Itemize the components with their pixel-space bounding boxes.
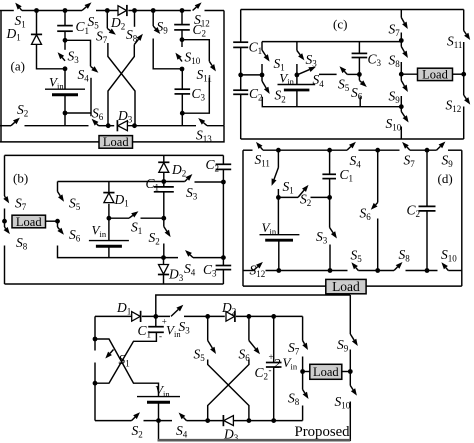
switch S10 (c) [400,107,402,112]
wire (b) S6 to inner bottom rail [58,246,179,258]
wire (d) inner rail seg3 [358,270,394,272]
switch S3 (c) [296,42,298,51]
switch S3 lower stub (d) [329,245,331,271]
wire load to S5S6 column [46,220,58,222]
switch S1 right wire [141,217,164,219]
switch S12 (c) [464,95,467,99]
capacitor C2 (b) [222,155,224,164]
node (a) C1 bottom [63,38,68,43]
wire D1 to Vin node (b) [108,204,110,218]
switch S4 lower stub [90,78,92,116]
wire (a) top rail segment D2 to S12 [128,10,191,12]
switch S2 (p) [132,417,135,420]
wire S4 to C3 node [193,257,223,259]
diode D2 (b) [163,155,165,162]
wire right edge to load (p) [349,350,351,372]
switch S2 (d) [278,196,298,198]
wire load left (c) [401,73,417,75]
wire S3 to C2 node [195,181,224,183]
node (p) battery bottom [156,418,161,423]
wire (c) left edge mid [240,47,242,90]
switch S6 (d) [377,150,379,202]
switch S3 (d) [329,197,331,227]
node (c) C3 bottom [357,72,362,77]
load box (a) [99,136,133,149]
wire (a) bottom rail seg2 [25,125,89,127]
switch S5 (c) [344,71,347,74]
node (c) load left [399,72,404,77]
svg-text:(d): (d) [438,171,453,186]
node (p) cross bottom right [247,418,252,423]
switch S7 upper stub [105,8,110,13]
wire (b) right column [222,182,224,258]
wire (c) right edge lower [463,107,465,140]
wire (a) bottom rail seg3 [99,125,115,127]
diode D1 (b) [108,182,110,193]
node (b) C1 bottom [161,216,166,221]
wire (d) right edge [461,150,463,286]
switch S12 (d) [254,267,258,271]
switch S10 (p) [349,372,351,386]
switch S11 lower wire [182,78,209,114]
node (a) top S9 [151,8,156,13]
capacitor C2 (c) [233,89,248,91]
switch S8 (c) [400,42,402,47]
switch S11 (c) [464,31,467,35]
node (p) left lower [93,381,98,386]
node (d) S6 bottom [375,268,380,273]
battery Vin (d) [277,197,279,234]
switch S6 (p) [248,316,250,340]
switch S7 (p) [302,316,304,340]
node (p) load right [348,369,353,374]
wire proposed outer top rail [156,295,350,316]
svg-text:Load: Load [16,215,42,229]
switch S6 [97,124,99,126]
diode D2 [118,6,127,16]
switch S6 (c) [358,74,360,80]
switch S1 (b) wire [109,217,129,219]
wire D3 to bottom rail [163,275,165,285]
wire (a) top rail mid segment [22,10,82,12]
wire (a) left edge [0,11,2,143]
battery Vin (p) [137,396,180,398]
node (a) C3 bottom [180,111,185,116]
capacitor C2 (p) [273,316,275,362]
switch S12 [193,7,197,10]
capacitor C3 (a) [181,69,183,89]
node (p) S5 top [205,314,210,319]
wire (b) left edge lower [4,246,6,285]
switch S1 (b) [129,215,133,218]
switch S1 (d) [277,150,279,167]
capacitor C2 (d) [426,150,428,206]
wire proposed rail seg1 [95,315,132,317]
switch S5 [82,7,86,11]
switch S3 [64,40,66,50]
wire (d) bottom rail left [243,285,326,287]
diode D3 (b) [163,258,165,265]
switch S7 (b) [4,196,7,197]
svg-text:-: - [269,365,272,375]
svg-text:Load: Load [103,135,129,149]
battery Vin (a) [64,69,66,89]
node (c) Vin+ [295,73,300,78]
wire (a) load rail right [133,126,225,142]
switch S1 (p) [94,339,96,351]
switch S4 wire upper [65,40,91,66]
node (b) load right [55,219,60,224]
wire (a) load rail left [0,141,99,143]
wire load right (c) [453,73,464,75]
switch S9 (c) [400,74,402,80]
wire proposed bottom border [158,439,351,442]
wire S6 cross branch (p) [208,360,249,421]
wire S7 cross branch [108,43,135,126]
wire (a) top rail segment to D2 [96,10,118,12]
switch S9 lower stub (c) [400,96,402,107]
node (d) S3 bottom [328,268,333,273]
wire (c) left edge upper [240,10,242,43]
diode D1 [36,11,38,35]
wire right edge lower (p) [349,402,351,442]
capacitor C1 (b) [163,182,165,187]
switch S8 [134,39,138,44]
wire (b) left edge upper [4,155,6,196]
svg-text:Load: Load [313,365,339,379]
node (d) C1 top [327,148,332,153]
node (d) C2 top [425,148,430,153]
wire proposed rail seg2 [142,315,170,317]
wire (c) right edge mid [463,42,465,95]
switch S2 lower stub (c) [262,97,401,107]
node (c) S1S2 [260,73,265,78]
wire (a) right edge [223,11,225,126]
wire (a) bottom rail left [0,125,11,127]
wire (c) left edge lower [240,94,242,139]
switch S3 lower stub (c) [296,64,298,75]
battery Vin (b) [108,218,110,240]
node (p) left upper [93,337,98,342]
node (p) C2 top [271,314,276,319]
wire S4-S5 (c) [319,73,337,75]
node (b) load left [2,219,7,224]
wire (c) bottom rail [241,138,464,140]
switch S4 (p) [183,418,186,421]
switch S2 (c) [261,75,263,81]
svg-text:Load: Load [332,279,360,294]
switch S1 (c) [261,42,263,50]
switch S3 (b) [185,179,188,182]
switch S11 (a) [209,61,212,65]
switch S2 lower stub [163,244,165,258]
switch S6 (b) [57,221,59,227]
wire S8 cross branch [108,45,134,126]
switch S8 lower stub (c) [400,62,402,74]
node (d) Vin+ [276,195,281,200]
wire (a) bottom rail seg4 [128,125,196,127]
switch S10 lower stub (c) [400,127,402,140]
load box (b) [12,215,46,228]
switch S9 (d) [437,146,441,150]
wire proposed bottom rail seg2 [144,420,173,422]
switch S8 (p) [302,372,304,390]
node (a) C3 top [180,67,185,72]
node (a) top D1 [34,8,39,13]
switch S4 (b) [190,255,193,258]
node (c) inner rail right [399,104,404,109]
load box (d) [326,279,366,293]
wire proposed left edge upper [94,316,96,339]
wire proposed rail seg3 [184,315,225,317]
node (p) C2 bottom [271,418,276,423]
switch S8 (b) [4,221,6,227]
switch S11 (d) [261,147,263,150]
switch S9 [152,11,154,27]
wire (c) inner top rail [262,41,401,43]
wire (a) bottom rail right [207,125,224,127]
switch S8 upper stub [132,8,137,13]
wire load left (p) [303,371,310,373]
wire (b) bottom rail [5,283,224,285]
node (a) Vin+ junction [63,66,68,71]
node (c) S7S8 [399,38,404,43]
capacitor C1 (c) [233,41,248,43]
wire cross arm upper-left to battery [95,339,159,397]
wire (b) inner top rail [58,181,185,183]
node (p) load left [300,369,305,374]
wire (b) left edge to load [4,209,6,222]
wire battery to border (p) [158,421,160,440]
wire cross arm lower-left to C1 [95,332,156,383]
switch S10 [181,40,183,47]
wire (d) inner rail seg5 [448,270,462,272]
svg-text:(c): (c) [333,17,347,32]
svg-text:Load: Load [422,68,448,82]
capacitor C1 [64,11,66,26]
capacitor C1 (p) [155,316,157,326]
wire S5 cross branch (p) [208,360,249,421]
wire (d) top rail seg4 [410,149,437,151]
wire (d) left edge [242,150,244,286]
wire S5 to C3 node [347,73,359,75]
switch S7 lower stub (c) [400,33,402,42]
diode D1 (p) [132,312,141,322]
switch S4 [91,66,93,68]
wire (d) inner rail seg2 [266,270,348,272]
capacitor C2 (a) [181,11,183,25]
diode D3 (a) [118,121,128,131]
wire proposed rail seg4 [236,315,303,317]
node (b) C3 top [221,255,226,260]
load box (c) [418,68,453,80]
switch S5 (b) [57,182,59,192]
switch S4 (c) [298,70,310,75]
switch S1 lower stub (c) [261,64,263,75]
wire (d) inner rail seg1 [243,270,254,272]
svg-text:Proposed: Proposed [295,424,351,440]
switch S1 lower stub (d) [277,189,279,197]
node (d) Vin- [276,268,281,273]
wire (d) top rail seg2 [263,149,347,151]
switch S8 lower stub (p) [302,406,304,421]
switch S7 [107,28,110,30]
node (a) top C1 [63,8,68,13]
node (b) D3 top [161,255,166,260]
wire (d) top rail seg1 [243,149,253,151]
node (d) S1 top [276,148,281,153]
switch S4 (d) [347,147,351,151]
wire proposed left edge lower [94,363,96,384]
wire (d) bottom rail right [366,285,462,287]
switch S8 (d) [394,267,398,271]
wire (b) top rail [5,154,224,156]
diode D2 (p) [226,312,235,322]
switch S3 (p) [171,310,178,317]
node (p) cross bottom left [205,418,210,423]
node (d) C2 bottom [425,268,430,273]
wire Vin- to S4/S6 [65,112,91,114]
capacitor C3 (b) [222,258,224,266]
node (p) S6 top [247,314,252,319]
diode D3 (p) [224,416,234,426]
load box (p) [310,364,342,379]
svg-text:(b): (b) [13,171,28,186]
switch S5 (d) [356,268,358,271]
wire S9 to C3 top [153,39,182,69]
node (b) C2 bottom [221,180,226,185]
wire (a) top rail left segment [0,10,14,12]
wire (c) right edge upper [463,10,465,31]
switch S2 right wire (d) [311,196,330,198]
node (c) left edge [238,73,243,78]
wire (d) top rail seg3 [359,149,400,151]
switch S9 (p) [350,334,354,340]
switch S10 (d) [446,268,448,271]
node (a) bottom left cross [106,123,111,128]
battery Vin (c) [296,75,298,85]
node (b) D2 bottom [163,173,165,182]
node (a) Vin- junction [63,111,68,116]
node (a) bottom right cross [132,123,137,128]
svg-text:(a): (a) [11,59,25,74]
capacitor C3 (c) [358,42,360,54]
wire proposed bottom rail seg1 [95,420,132,422]
capacitor C1 (d) [329,150,331,174]
switch S6 lower stub (d) [377,219,379,271]
switch S2 [11,122,15,125]
node (b) Vin+ [107,216,112,221]
wire (d) inner rail seg4 [406,270,438,272]
wire left edge to S1S2 (c) [241,74,262,76]
wire (d) top rail seg5 [448,149,462,151]
node (d) S6 top [375,148,380,153]
switch S11 upper wire [182,40,209,62]
switch S5 (p) [207,316,209,340]
node (d) C1 bottom [327,195,332,200]
switch S2 (b) [163,218,165,226]
switch S7 lower stub (p) [302,357,304,372]
switch S13 [203,123,207,126]
wire proposed bottom rail seg3 [187,420,224,422]
wire left edge bottom [94,383,96,420]
wire proposed bottom rail seg4 [234,420,303,422]
node (c) load right [461,72,466,77]
switch S6 lower stub (c) [359,97,361,107]
wire (c) top rail [241,9,464,11]
switch S7 (d) [407,147,410,150]
wire D1 to Vin+ node [37,45,66,69]
wire load right (p) [342,371,351,373]
wire proposed right edge upper [349,295,351,334]
svg-text:-: - [159,331,162,341]
node (p) C1 top [153,314,158,319]
switch S1 [20,8,22,11]
node (a) C2 bottom [180,37,185,42]
wire (a) top rail right segment [205,10,225,12]
switch S7 (c) [400,10,402,18]
node (a) top C2 [180,8,185,13]
svg-text:2: 2 [274,357,281,372]
